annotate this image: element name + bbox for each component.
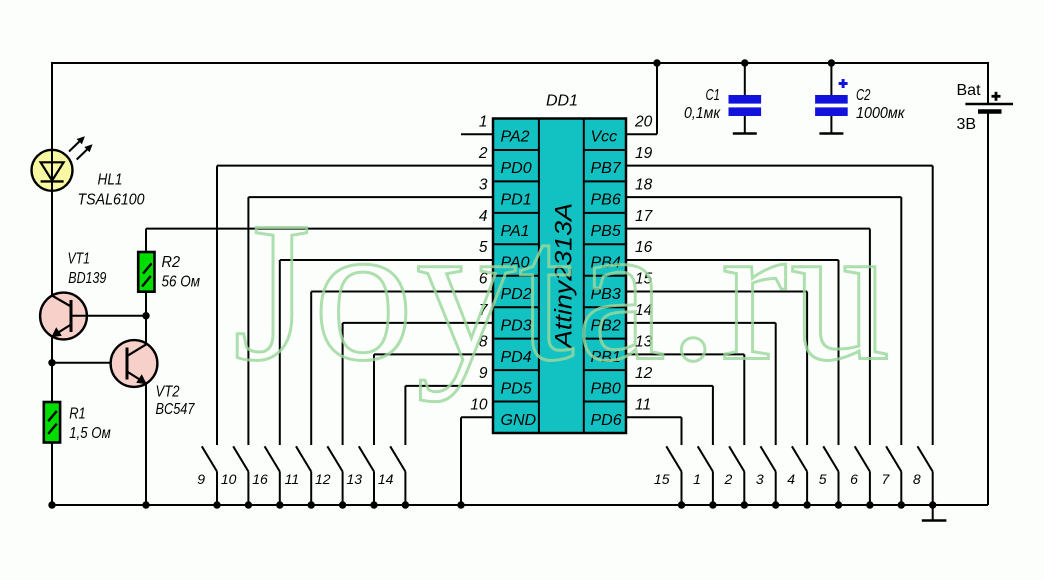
pin 11 (PD6) wire [591,396,682,445]
junction: C1 on top rail [741,59,748,66]
pin 14 (PB2) wire [591,302,776,445]
pin 2 (PD0) wire [217,145,532,445]
wire: R2/VT2 collector branch [145,229,147,252]
resistor R2 [138,252,154,292]
switch S9 [197,446,220,508]
switch S12 [315,446,346,508]
svg-text:7: 7 [882,471,891,487]
svg-text:Bat: Bat [957,82,982,99]
battery Bat 3V [965,92,1013,112]
switch S15 [654,446,685,508]
resistor R1 [44,402,60,443]
junction: C2 on top rail [828,59,835,66]
svg-text:R2: R2 [162,254,181,271]
svg-text:PD0: PD0 [501,160,532,177]
switch S1 [693,446,716,508]
svg-text:8: 8 [913,471,921,487]
svg-text:PA2: PA2 [501,129,530,146]
svg-text:PB7: PB7 [591,160,622,177]
wire: VT2 base to left branch [52,362,127,364]
pin 5 (PA0) wire [280,239,530,445]
switch S3 [756,446,779,508]
svg-text:4: 4 [787,471,795,487]
svg-text:1000мк: 1000мк [856,105,905,122]
pin 16 (PB4) wire [591,239,839,445]
svg-text:HL1: HL1 [98,172,123,189]
junction: GND pin branch on bottom rail [457,501,464,508]
wire: VT1 base to R2/VT2 node [71,315,146,317]
junction: VT1 emitter / VT2 base [48,359,55,366]
switch S16 [252,446,283,508]
svg-text:0,1мк: 0,1мк [684,105,721,122]
svg-text:2: 2 [724,471,733,487]
svg-text:GND: GND [501,412,537,429]
svg-text:BC547: BC547 [156,401,196,418]
svg-text:14: 14 [378,471,394,487]
svg-text:9: 9 [197,471,205,487]
IC DD1 Attiny2313A body [493,119,626,434]
switch S6 [850,446,873,508]
svg-text:1: 1 [693,471,701,487]
switch S4 [787,446,810,508]
pin 13 (PB1) wire [591,334,745,445]
switch S14 [378,446,409,508]
switch S2 [724,446,748,508]
svg-text:12: 12 [315,471,331,487]
junction: R2 / VT1 base / VT2 collector [142,312,149,319]
junction: bottom-left corner [48,501,55,508]
ground symbol [922,505,947,521]
svg-text:DD1: DD1 [546,92,578,109]
pin 3 (PD1) wire [248,176,531,445]
pin 6 (PD2) wire [311,271,532,445]
wire: top supply rail [52,62,988,64]
svg-text:3: 3 [756,471,764,487]
pin 20 (Vcc) wire [591,63,658,146]
svg-text:C2: C2 [856,87,871,104]
switch S5 [819,446,842,508]
pin 19 (PB7) wire [591,145,933,445]
svg-text:R1: R1 [69,406,86,423]
capacitor C1 [729,63,762,134]
pin 4 (PA1) wire [146,208,530,240]
wire: left branch (LED anode / VT1 / R1) [51,62,53,296]
svg-text:1,5 Ом: 1,5 Ом [69,425,111,442]
svg-text:Joyta.ru: Joyta.ru [233,182,893,403]
junction: VT2 emitter to bottom rail [142,501,149,508]
pin 18 (PB6) wire [591,176,902,445]
svg-text:2: 2 [478,145,488,162]
svg-text:PD6: PD6 [591,412,622,429]
wire: bottom ground rail [52,504,988,506]
pin 9 (PD5) wire [405,365,531,445]
svg-text:VT1: VT1 [68,250,91,267]
switch S10 [221,446,252,508]
transistor VT2 [111,340,158,387]
capacitor C2 [815,63,848,134]
switch S7 [882,446,905,508]
switch S11 [285,446,315,508]
pin 7 (PD3) wire [343,302,532,445]
svg-text:13: 13 [346,471,362,487]
svg-text:C1: C1 [706,87,721,104]
svg-text:19: 19 [635,145,653,162]
pin 1 (PA2) wire [461,113,530,145]
wire: right branch, battery bottom [987,112,989,506]
switch S13 [346,446,377,508]
pin 8 (PD4) wire [374,334,532,445]
pin 15 (PB3) wire [591,271,808,445]
svg-text:3В: 3В [957,116,977,133]
transistor VT1 [40,293,87,340]
svg-text:6: 6 [850,471,858,487]
svg-text:11: 11 [285,471,300,487]
svg-text:20: 20 [634,113,653,130]
svg-text:10: 10 [221,471,237,487]
svg-text:TSAL6100: TSAL6100 [78,191,145,208]
pin 12 (PB0) wire [591,365,713,445]
svg-text:16: 16 [252,471,268,487]
svg-text:5: 5 [819,471,827,487]
pin 17 (PB5) wire [591,208,870,445]
svg-text:56 Ом: 56 Ом [162,274,201,291]
wire: right branch, battery top [987,62,989,104]
LED HL1 [32,136,93,191]
svg-text:Vcc: Vcc [591,129,618,146]
svg-text:VT2: VT2 [156,383,180,400]
svg-text:15: 15 [654,471,670,487]
pin 10 (GND) wire [461,396,537,505]
switch S8 [913,446,936,508]
svg-text:1: 1 [479,113,488,130]
svg-text:BD139: BD139 [68,270,106,287]
junction: Vcc riser on top rail [653,59,660,66]
